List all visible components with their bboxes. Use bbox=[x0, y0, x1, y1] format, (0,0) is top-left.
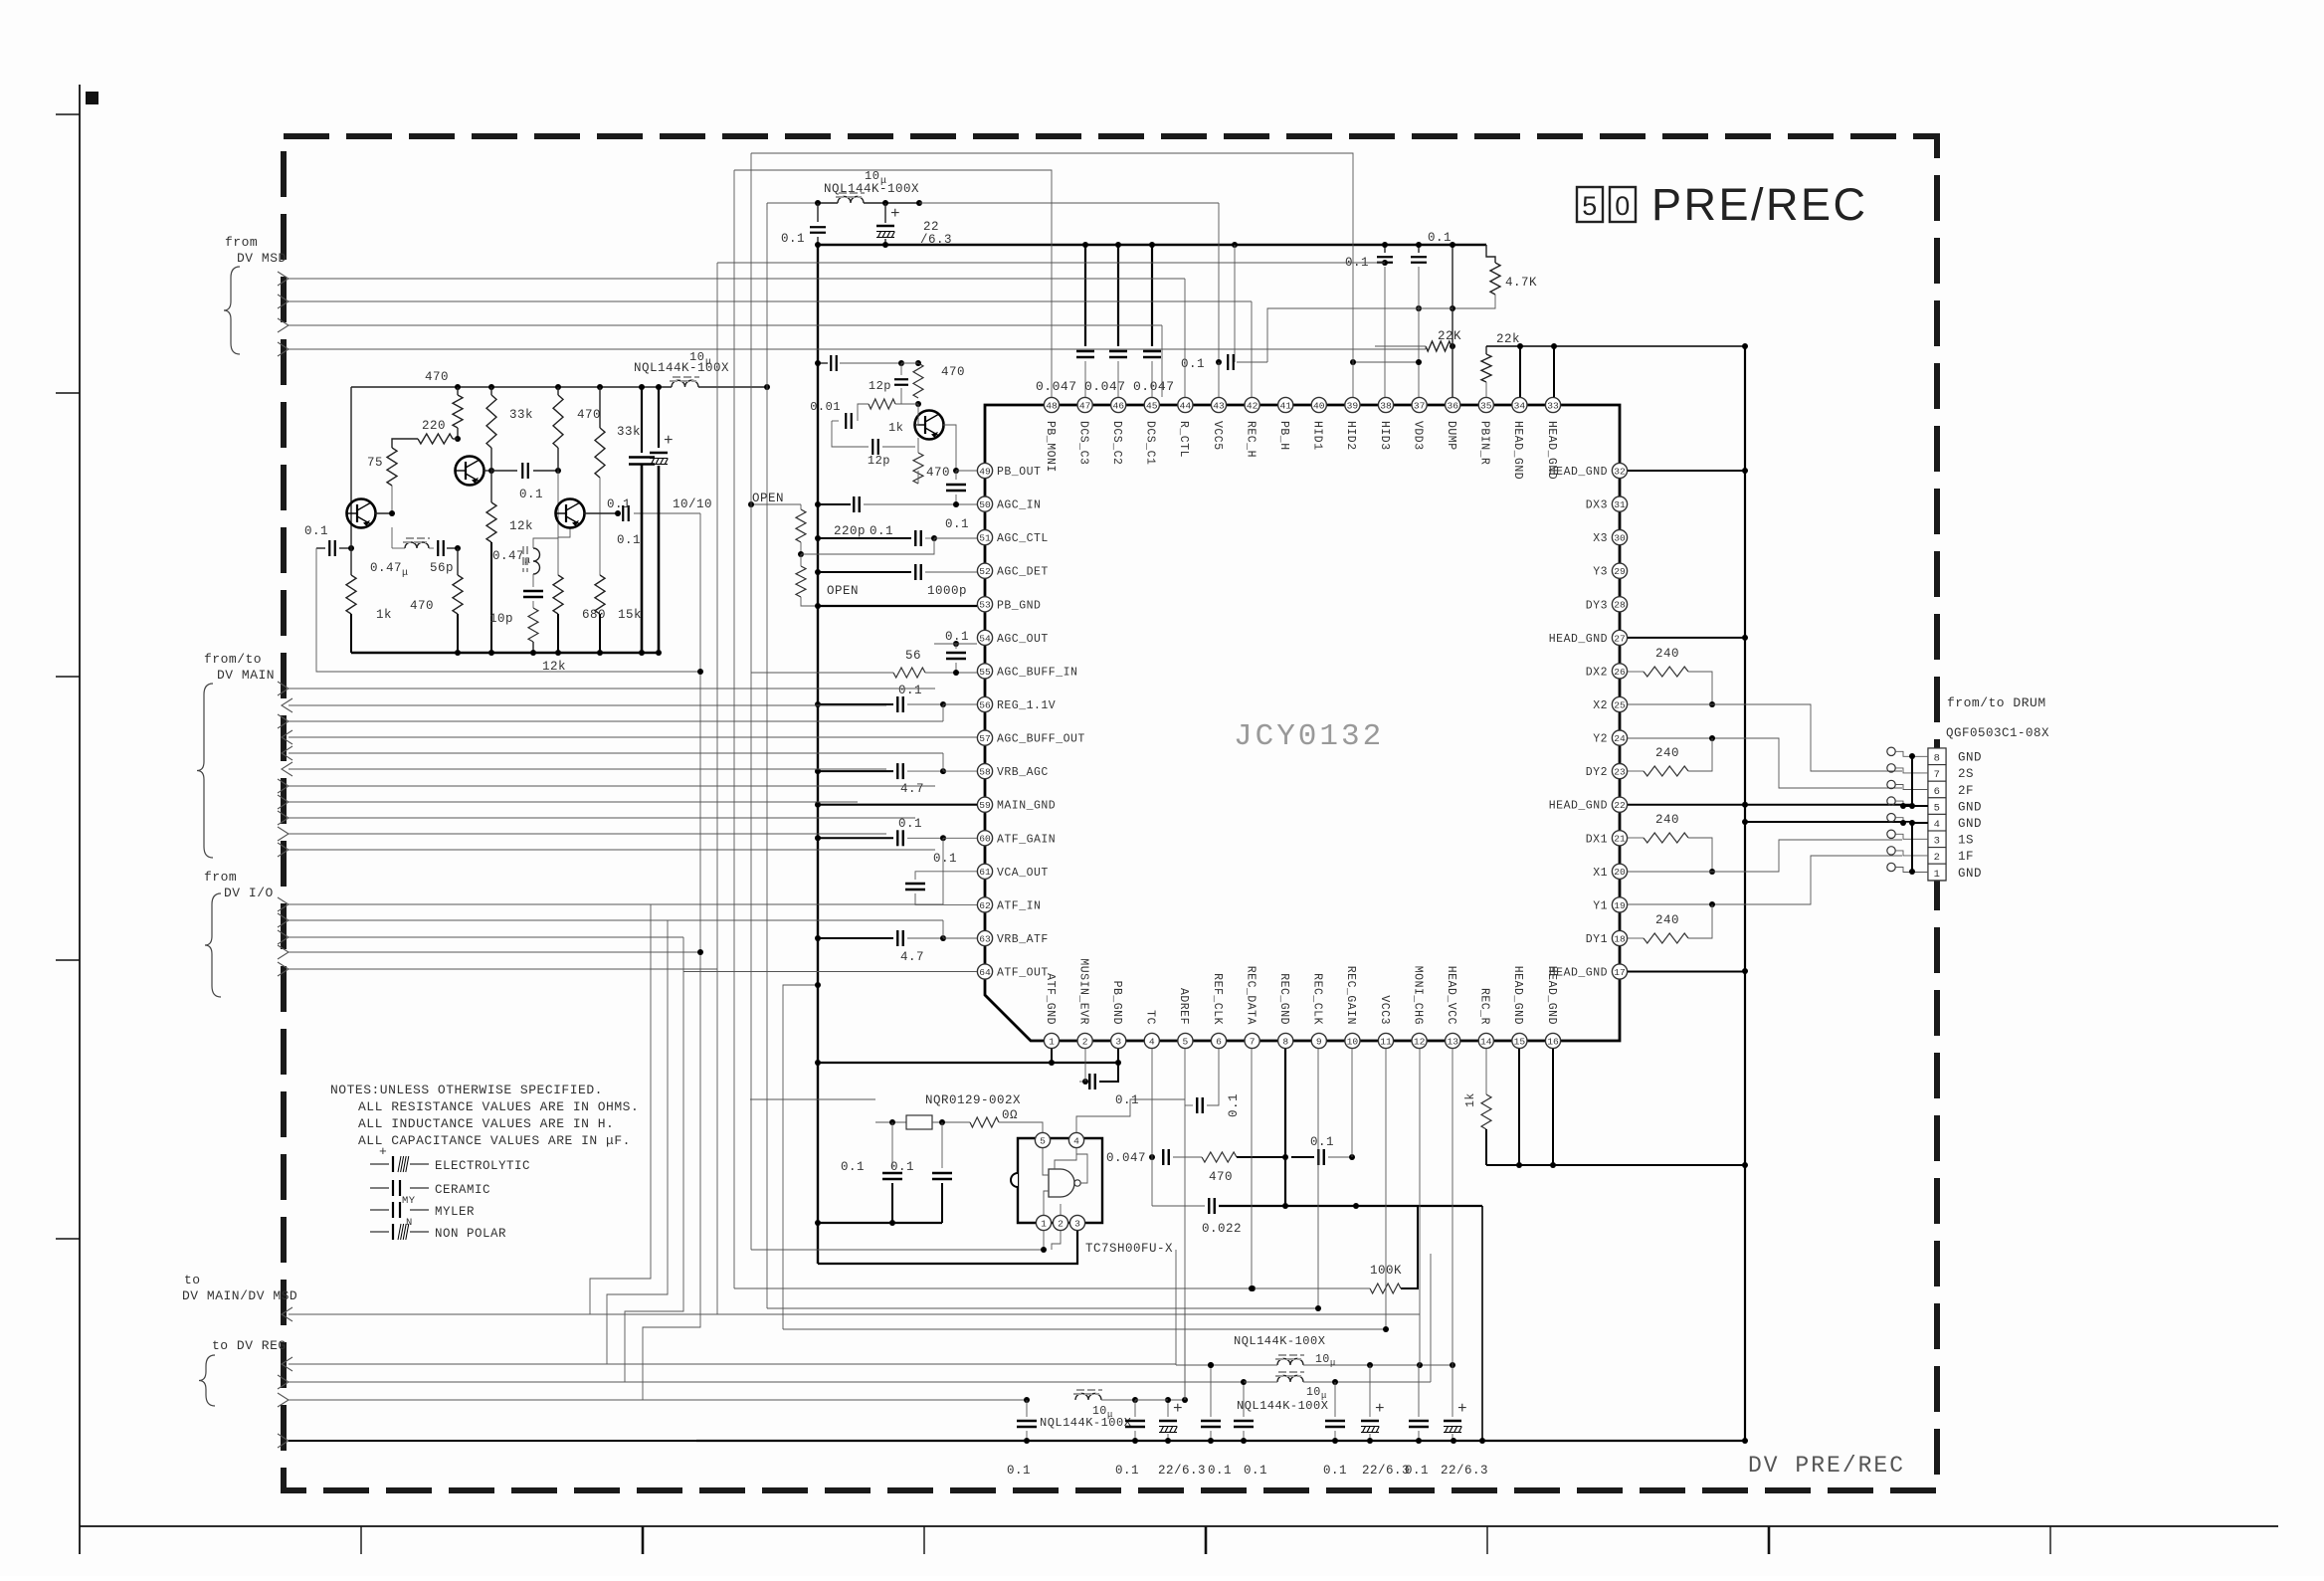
wire return 63 bbox=[942, 920, 944, 938]
wire 4.7K to VDD3 bbox=[1419, 295, 1495, 308]
svg-text:3: 3 bbox=[1115, 1036, 1121, 1047]
connector GND bus top bbox=[1911, 756, 1913, 806]
svg-text:μ: μ bbox=[402, 568, 409, 579]
svg-text:ATF_GAIN: ATF_GAIN bbox=[997, 833, 1056, 846]
wire amp rail drop left bbox=[350, 387, 352, 527]
resistor 470 bbox=[913, 453, 923, 484]
wire Q1 branch bbox=[391, 527, 393, 548]
svg-text:12: 12 bbox=[1414, 1036, 1426, 1047]
pin 5 ADREF bbox=[1178, 1033, 1193, 1048]
svg-text:43: 43 bbox=[1213, 400, 1225, 411]
svg-text:0.1: 0.1 bbox=[1428, 231, 1452, 245]
wire pin17 stub bbox=[1628, 971, 1745, 973]
svg-text:8: 8 bbox=[1934, 753, 1941, 765]
wire from DV MSD 1 bbox=[289, 278, 1185, 280]
pin 14 REC_R bbox=[1478, 1033, 1493, 1048]
svg-text:21: 21 bbox=[1614, 834, 1626, 845]
svg-text:CERAMIC: CERAMIC bbox=[435, 1183, 490, 1197]
capacitor 0.047 bbox=[1143, 350, 1161, 352]
capacitor 0.1 input bbox=[316, 547, 325, 549]
wire to DV REG 1 bbox=[289, 1363, 1176, 1365]
svg-text:30: 30 bbox=[1614, 533, 1626, 544]
wire head gnd 1171 bbox=[1486, 1164, 1745, 1166]
wire 100K up bbox=[1401, 1206, 1418, 1288]
svg-text:DX2: DX2 bbox=[1586, 666, 1608, 679]
svg-text:5: 5 bbox=[1040, 1135, 1046, 1146]
svg-text:15k: 15k bbox=[618, 608, 642, 622]
capacitor 0.1 r5 bbox=[1334, 1382, 1336, 1417]
svg-text:VCC5: VCC5 bbox=[1211, 421, 1224, 451]
svg-text:HEAD_GND: HEAD_GND bbox=[1511, 421, 1524, 480]
svg-text:HEAD_GND: HEAD_GND bbox=[1549, 800, 1608, 813]
connector CN drum body bbox=[1928, 748, 1946, 881]
wire base Q1 bbox=[375, 512, 392, 514]
svg-text:REC_H: REC_H bbox=[1244, 421, 1257, 458]
wire return 60 bbox=[942, 838, 944, 904]
svg-text:10p: 10p bbox=[489, 612, 513, 626]
connector GND bus bottom bbox=[1911, 823, 1913, 872]
wire stair DV I/O 4 bbox=[643, 952, 700, 1400]
svg-text:MONI_CHG: MONI_CHG bbox=[1411, 966, 1424, 1025]
pin 47 DCS_C3 bbox=[1077, 397, 1092, 412]
connector arrow bbox=[278, 1393, 289, 1407]
svg-text:/6.3: /6.3 bbox=[920, 233, 952, 247]
resistor 10p bbox=[528, 608, 538, 642]
connector arrow bbox=[278, 318, 289, 332]
pin 59 MAIN_GND bbox=[977, 797, 992, 812]
wire 561 down bbox=[557, 471, 559, 507]
brace DV I/O bbox=[205, 893, 221, 997]
svg-text:10/10: 10/10 bbox=[673, 497, 712, 511]
capacitor 0.1 bbox=[1196, 1097, 1198, 1113]
capacitor 0.1 bbox=[882, 1172, 902, 1174]
page bottom rule bbox=[80, 1525, 2278, 1527]
wire pin2 down bbox=[1084, 1049, 1086, 1082]
resistor 56 bbox=[893, 668, 925, 678]
wire stair DV I/O 2 bbox=[607, 920, 668, 1364]
svg-text:from: from bbox=[225, 235, 258, 250]
svg-text:22k: 22k bbox=[1496, 332, 1520, 346]
page registration square bbox=[86, 92, 98, 104]
capacitor 0.1 pin43 area bbox=[1234, 245, 1236, 362]
wire drop bbox=[1184, 279, 1186, 397]
capacitor 0.1 r2 bbox=[1134, 1400, 1136, 1417]
wire DV I/O 1 bbox=[289, 903, 943, 905]
svg-text:ALL CAPACITANCE VALUES ARE IN: ALL CAPACITANCE VALUES ARE IN μF. bbox=[358, 1133, 631, 1148]
wire amp bottom rail bbox=[351, 652, 660, 655]
svg-text:0.022: 0.022 bbox=[1202, 1222, 1242, 1236]
svg-text:REG_1.1V: REG_1.1V bbox=[997, 699, 1056, 712]
svg-text:ATF_IN: ATF_IN bbox=[997, 899, 1041, 912]
svg-text:N: N bbox=[406, 1217, 413, 1229]
svg-text:2F: 2F bbox=[1958, 784, 1974, 798]
capacitor 0.1 bbox=[1227, 354, 1229, 370]
resistor 240 bbox=[1644, 933, 1688, 943]
wire drop bbox=[1161, 325, 1163, 397]
connector arrow bbox=[278, 930, 289, 944]
pin 48 PB_MONI bbox=[1044, 397, 1059, 412]
pin 13 HEAD_VCC bbox=[1446, 1033, 1460, 1048]
svg-text:470: 470 bbox=[577, 408, 601, 422]
capacitor 0.1 bbox=[1234, 1420, 1254, 1422]
pin 62 ATF_IN bbox=[977, 897, 992, 912]
pin 38 HID3 bbox=[1378, 397, 1393, 412]
svg-text:PB_MONI: PB_MONI bbox=[1044, 421, 1057, 473]
svg-text:0.047: 0.047 bbox=[1036, 379, 1077, 394]
resistor 240 bbox=[1644, 766, 1688, 776]
svg-text:GND: GND bbox=[1958, 800, 1982, 814]
capacitor 0.1 bbox=[946, 652, 966, 654]
svg-text:34: 34 bbox=[1514, 400, 1526, 411]
svg-text:39: 39 bbox=[1347, 400, 1359, 411]
svg-text:22/6.3: 22/6.3 bbox=[1158, 1464, 1206, 1478]
pin 19 Y1 bbox=[1612, 897, 1627, 912]
svg-text:60: 60 bbox=[979, 834, 991, 845]
wire pin52 cap 1000p bbox=[818, 571, 911, 573]
svg-text:GND: GND bbox=[1958, 751, 1982, 765]
svg-text:0.1: 0.1 bbox=[1208, 1464, 1232, 1478]
wire nand gnd bbox=[1044, 1191, 1049, 1215]
inductor NQL144K-100X bbox=[1277, 1359, 1303, 1365]
svg-text:PB_GND: PB_GND bbox=[997, 599, 1041, 612]
wire top rail VCC bbox=[818, 244, 1486, 247]
capacitor 0.1 bbox=[810, 226, 826, 228]
resistor 240 bbox=[1644, 833, 1688, 843]
connector arrow bbox=[282, 746, 292, 760]
svg-text:22/6.3: 22/6.3 bbox=[1441, 1464, 1488, 1478]
wire cap to dump net bbox=[1237, 361, 1267, 363]
capacitor near pin3 bbox=[1079, 1081, 1085, 1083]
pin 39 HID2 bbox=[1345, 397, 1360, 412]
connector arrow bbox=[278, 843, 289, 857]
wire nand in1 bbox=[1043, 1148, 1049, 1175]
svg-text:PRE/REC: PRE/REC bbox=[1651, 179, 1868, 230]
svg-text:1: 1 bbox=[1049, 1036, 1055, 1047]
svg-text:DCS_C1: DCS_C1 bbox=[1144, 421, 1157, 465]
capacitor 0.1 bbox=[896, 763, 898, 779]
svg-text:Y1: Y1 bbox=[1593, 899, 1608, 912]
capacitor 0.1 bbox=[1201, 1420, 1221, 1422]
svg-text:470: 470 bbox=[926, 466, 950, 480]
capacitor 0.1 bbox=[905, 883, 925, 885]
pin 28 DY3 bbox=[1612, 597, 1627, 612]
svg-text:62: 62 bbox=[979, 900, 991, 911]
svg-text:7: 7 bbox=[1934, 769, 1941, 781]
svg-text:JCY0132: JCY0132 bbox=[1234, 719, 1384, 754]
svg-text:μ: μ bbox=[1330, 1358, 1336, 1368]
pin 5 TC7SH00FU bbox=[1035, 1132, 1050, 1147]
svg-text:470: 470 bbox=[410, 599, 434, 613]
inductor 0.47u bbox=[533, 548, 540, 574]
wire vertical x738 bbox=[733, 170, 735, 1288]
pin 43 VCC5 bbox=[1211, 397, 1226, 412]
svg-text:0.1: 0.1 bbox=[898, 817, 922, 831]
connector arrow bbox=[278, 945, 289, 959]
svg-text:REC_GAIN: REC_GAIN bbox=[1344, 966, 1357, 1025]
capacitor 0.1 bbox=[328, 540, 330, 556]
svg-text:0.047: 0.047 bbox=[1133, 379, 1175, 394]
svg-text:23: 23 bbox=[1614, 767, 1626, 778]
svg-text:22: 22 bbox=[1614, 800, 1626, 811]
svg-text:DCS_C3: DCS_C3 bbox=[1076, 421, 1089, 465]
pin 12 MONI_CHG bbox=[1412, 1033, 1427, 1048]
wire DV MAIN 11 bbox=[289, 849, 935, 851]
wire to pin 49 bbox=[956, 470, 977, 472]
capacitor 0.1 bbox=[521, 463, 523, 479]
pin 29 Y3 bbox=[1612, 563, 1627, 578]
svg-text:0.1: 0.1 bbox=[945, 517, 969, 531]
pin 11 VCC3 bbox=[1378, 1033, 1393, 1048]
svg-text:1k: 1k bbox=[888, 421, 903, 435]
svg-text:37: 37 bbox=[1414, 400, 1426, 411]
wire rail corner to 4.7K bbox=[1486, 245, 1495, 263]
connector pin 3 1S bbox=[1928, 831, 1946, 848]
connector contact 4 bbox=[1887, 814, 1895, 822]
fuse NQR0129-002X bbox=[875, 1121, 906, 1123]
wire nested top 3 bbox=[766, 203, 768, 210]
svg-text:22K: 22K bbox=[1438, 329, 1461, 343]
svg-text:OPEN: OPEN bbox=[827, 584, 859, 598]
svg-text:X2: X2 bbox=[1593, 699, 1608, 712]
capacitor 0.1 bbox=[1325, 1420, 1345, 1422]
electrolytic capacitor bbox=[1361, 1420, 1379, 1422]
pin 36 DUMP bbox=[1446, 397, 1460, 412]
pin 63 VRB_ATF bbox=[977, 930, 992, 945]
wire vertical x771 bbox=[766, 203, 768, 1308]
svg-text:240: 240 bbox=[1655, 813, 1679, 827]
svg-text:45: 45 bbox=[1146, 400, 1158, 411]
pin 23 DY2 bbox=[1612, 764, 1627, 779]
capacitor 0.047 bbox=[1109, 350, 1127, 352]
bus main vertical x822 bbox=[817, 245, 819, 1264]
page tick bbox=[360, 1526, 362, 1554]
svg-text:13: 13 bbox=[1447, 1036, 1458, 1047]
svg-text:1k: 1k bbox=[376, 608, 392, 622]
svg-text:0.1: 0.1 bbox=[1310, 1135, 1334, 1149]
wire vertical x721 bbox=[717, 262, 1378, 264]
svg-text:38: 38 bbox=[1380, 400, 1392, 411]
svg-text:MUSIN_EVR: MUSIN_EVR bbox=[1076, 958, 1089, 1025]
svg-text:GND: GND bbox=[1958, 867, 1982, 881]
svg-text:19: 19 bbox=[1614, 900, 1626, 911]
svg-text:NQL144K-100X: NQL144K-100X bbox=[1237, 1399, 1328, 1413]
dashed border of DV PRE/REC board bbox=[284, 136, 1937, 1490]
wire to right bbox=[698, 386, 767, 388]
svg-text:4.7: 4.7 bbox=[900, 950, 924, 964]
wire vertical x704 bbox=[699, 513, 701, 952]
pin 42 REC_H bbox=[1245, 397, 1259, 412]
pin 57 AGC_BUFF_OUT bbox=[977, 730, 992, 745]
connector arrow bbox=[278, 897, 289, 911]
pin 41 PB_H bbox=[1278, 397, 1293, 412]
svg-text:PB_GND: PB_GND bbox=[1110, 981, 1123, 1025]
svg-text:56: 56 bbox=[979, 699, 991, 710]
svg-text:0.1: 0.1 bbox=[1244, 1464, 1267, 1478]
legend non polar bbox=[370, 1231, 389, 1233]
wire pin58 VRB_AGC cap 4.7 bbox=[818, 770, 893, 772]
svg-text:1: 1 bbox=[1041, 1218, 1047, 1229]
resistor 15k bbox=[595, 575, 605, 614]
svg-text:1000p: 1000p bbox=[927, 584, 967, 598]
capacitor 0.1 bbox=[1411, 256, 1427, 258]
connector pin 5 GND bbox=[1928, 798, 1946, 815]
pin 60 ATF_GAIN bbox=[977, 831, 992, 846]
capacitor 0.1 r4 bbox=[1243, 1382, 1245, 1417]
svg-text:1S: 1S bbox=[1958, 834, 1974, 848]
svg-text:29: 29 bbox=[1614, 566, 1626, 577]
svg-text:220: 220 bbox=[422, 419, 446, 433]
svg-text:56p: 56p bbox=[430, 561, 454, 575]
svg-text:0.1: 0.1 bbox=[781, 232, 805, 246]
connector arrow bbox=[278, 342, 289, 356]
connector pin 2 1F bbox=[1928, 848, 1946, 865]
capacitor 1000p bbox=[914, 564, 916, 580]
wire pin64 bbox=[683, 971, 977, 973]
wire DV MAIN 6 bbox=[289, 768, 886, 770]
wire pin22 stub bbox=[1628, 804, 1912, 806]
connector contact 1 bbox=[1887, 863, 1895, 871]
wire 75 to Q1 bbox=[391, 486, 393, 513]
svg-text:OPEN: OPEN bbox=[752, 492, 784, 505]
wire pins1-3 bottom link bbox=[818, 1062, 1118, 1064]
svg-text:14: 14 bbox=[1480, 1036, 1492, 1047]
svg-text:2: 2 bbox=[1934, 852, 1941, 864]
resistor 1k bbox=[869, 399, 895, 409]
resistor 470 bbox=[913, 363, 923, 398]
wire pin verticals down bbox=[1184, 1049, 1186, 1099]
svg-text:ALL INDUCTANCE VALUES ARE IN H: ALL INDUCTANCE VALUES ARE IN H. bbox=[358, 1116, 614, 1131]
svg-text:32: 32 bbox=[1614, 466, 1626, 477]
connector pin 6 2F bbox=[1928, 781, 1946, 798]
svg-text:HEAD_GND: HEAD_GND bbox=[1549, 633, 1608, 646]
wire drop bbox=[1251, 301, 1253, 397]
resistor OPEN bbox=[796, 509, 806, 542]
capacitor 0.047 pin45 bbox=[1151, 245, 1153, 346]
svg-text:AGC_OUT: AGC_OUT bbox=[997, 633, 1049, 646]
svg-text:0.47: 0.47 bbox=[370, 561, 402, 575]
pin 32 HEAD_GND bbox=[1612, 463, 1627, 478]
IC U1 JCY0132 outline bbox=[985, 405, 1620, 1041]
svg-text:X3: X3 bbox=[1593, 532, 1608, 545]
transistor bbox=[347, 499, 376, 528]
resistor 33k bbox=[486, 395, 496, 448]
inductor NQL144K-100X bbox=[1075, 1394, 1101, 1401]
svg-text:12k: 12k bbox=[509, 519, 533, 533]
svg-text:DX1: DX1 bbox=[1586, 833, 1608, 846]
wire nand pins1-2 bbox=[1043, 1231, 1045, 1250]
svg-text:18: 18 bbox=[1614, 933, 1626, 944]
svg-text:28: 28 bbox=[1614, 600, 1626, 611]
capacitor 0.047 bbox=[1162, 1149, 1164, 1165]
wire to DV REG 2 bbox=[289, 1381, 1244, 1383]
svg-text:0.1: 0.1 bbox=[1227, 1093, 1241, 1117]
page tick bbox=[1768, 1526, 1771, 1554]
svg-text:Y2: Y2 bbox=[1593, 733, 1608, 746]
wire nand out bbox=[1076, 1154, 1087, 1183]
connector arrow bbox=[278, 1434, 289, 1448]
svg-text:Y3: Y3 bbox=[1593, 566, 1608, 579]
wire VCC5 vertical bbox=[1218, 203, 1220, 362]
svg-text:HEAD_GND: HEAD_GND bbox=[1545, 966, 1558, 1025]
capacitor 0.047 bbox=[1076, 350, 1094, 352]
wire return 58 bbox=[942, 753, 944, 771]
brace DV MSD bbox=[224, 267, 240, 354]
capacitor 0.047 pin47 bbox=[1084, 245, 1086, 346]
wire pin4 TC down bbox=[1151, 1049, 1153, 1105]
wire DV MAIN 10 bbox=[289, 833, 886, 835]
wire pin34 up bbox=[1519, 346, 1521, 397]
svg-text:4: 4 bbox=[1073, 1135, 1079, 1146]
svg-text:VCA_OUT: VCA_OUT bbox=[997, 867, 1049, 880]
pin 16 HEAD_GND bbox=[1545, 1033, 1560, 1048]
svg-text:50: 50 bbox=[979, 499, 991, 510]
svg-text:36: 36 bbox=[1447, 400, 1458, 411]
svg-text:DV MSD: DV MSD bbox=[237, 251, 287, 266]
svg-text:DV MAIN: DV MAIN bbox=[217, 668, 275, 683]
svg-text:+: + bbox=[1375, 1400, 1385, 1418]
svg-text:12p: 12p bbox=[869, 379, 891, 393]
resistor 240 DX1 bbox=[1628, 837, 1644, 839]
wire pin49 net cap bbox=[818, 362, 828, 364]
svg-text:0.1: 0.1 bbox=[841, 1160, 865, 1174]
svg-text:63: 63 bbox=[979, 933, 991, 944]
wire filter row 1389 bbox=[1244, 1381, 1277, 1383]
wire 22k to pin35 bbox=[1485, 382, 1487, 397]
svg-text:DY1: DY1 bbox=[1586, 933, 1608, 946]
svg-text:680: 680 bbox=[582, 608, 606, 622]
capacitor below inductor bbox=[532, 574, 534, 587]
svg-text:42: 42 bbox=[1247, 400, 1259, 411]
capacitor 0.1 bbox=[1377, 256, 1393, 258]
svg-text:MAIN_GND: MAIN_GND bbox=[997, 800, 1056, 813]
capacitor 0.1 bbox=[1317, 1149, 1319, 1165]
wire amp top rail bbox=[351, 386, 672, 388]
electrolytic capacitor bbox=[1159, 1420, 1177, 1422]
svg-text:AGC_DET: AGC_DET bbox=[997, 566, 1049, 579]
brace DV MAIN bbox=[197, 684, 213, 858]
svg-text:DV PRE/REC: DV PRE/REC bbox=[1748, 1453, 1905, 1479]
svg-text:ATF_GND: ATF_GND bbox=[1044, 973, 1057, 1025]
pin 17 HEAD_GND bbox=[1612, 964, 1627, 979]
wire from DV MSD 3 bbox=[289, 324, 1162, 326]
capacitor 56p bbox=[437, 540, 439, 556]
connector arrow bbox=[278, 272, 289, 286]
pin 21 DX1 bbox=[1612, 831, 1627, 846]
svg-text:0.1: 0.1 bbox=[898, 684, 922, 697]
connector arrow bbox=[278, 682, 289, 695]
svg-text:22/6.3: 22/6.3 bbox=[1362, 1464, 1410, 1478]
svg-text:1k: 1k bbox=[1464, 1092, 1477, 1107]
svg-text:24: 24 bbox=[1614, 733, 1626, 744]
wire DV MAIN 5 bbox=[289, 752, 943, 754]
svg-text:from/to DRUM: from/to DRUM bbox=[1947, 695, 2046, 710]
svg-text:31: 31 bbox=[1614, 499, 1626, 510]
svg-text:47: 47 bbox=[1079, 400, 1091, 411]
pin 53 PB_GND bbox=[977, 597, 992, 612]
capacitor 0.1 bbox=[1017, 1420, 1037, 1422]
svg-text:25: 25 bbox=[1614, 699, 1626, 710]
connector arrow bbox=[278, 779, 289, 793]
capacitor 0.1 r3 bbox=[1210, 1365, 1212, 1417]
connector arrow bbox=[278, 962, 289, 976]
resistor 1k bbox=[1481, 1094, 1491, 1129]
pin 2 MUSIN_EVR bbox=[1077, 1033, 1092, 1048]
connector arrow bbox=[278, 811, 289, 825]
connector arrow bbox=[282, 730, 292, 744]
connector arrow bbox=[278, 795, 289, 809]
svg-text:DY3: DY3 bbox=[1586, 599, 1608, 612]
svg-text:470: 470 bbox=[1209, 1170, 1233, 1184]
